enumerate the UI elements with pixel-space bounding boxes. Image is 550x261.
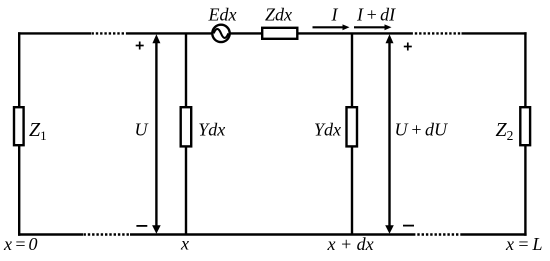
wire shunt branch at x <box>185 33 187 234</box>
svg-text:I+dI: I+dI <box>356 4 396 24</box>
wire left vertical <box>18 32 20 235</box>
svg-text:x + dx: x + dx <box>327 234 374 254</box>
wire top rail dotted right <box>411 32 462 34</box>
impedance Zdx <box>262 28 297 39</box>
voltage arrow U+dU (double headed) <box>385 34 394 234</box>
voltage arrow U (double headed) <box>152 34 161 234</box>
polarity minus right <box>403 225 414 227</box>
source Edx (AC) <box>212 25 229 42</box>
wire bottom rail solid right <box>462 233 527 235</box>
wire bottom rail solid left <box>18 233 83 235</box>
polarity plus left <box>136 42 144 50</box>
wire top rail dotted left <box>92 32 128 34</box>
svg-text:x=L: x=L <box>505 234 543 254</box>
admittance Ydx (left) <box>181 107 192 146</box>
wire top rail solid left <box>18 32 91 34</box>
wire bottom rail dotted left <box>84 233 131 235</box>
wire bottom rail dotted right <box>413 233 462 235</box>
impedance Z1 <box>14 107 24 145</box>
wire shunt branch at x+dx <box>351 33 353 234</box>
svg-text:I: I <box>331 4 339 24</box>
svg-text:Edx: Edx <box>208 4 237 24</box>
svg-text:U: U <box>135 120 149 140</box>
current arrow I+dI <box>354 24 392 30</box>
svg-text:Ydx: Ydx <box>198 120 225 140</box>
current arrow I <box>313 24 350 30</box>
wire top rail solid middle <box>128 32 411 34</box>
svg-text:U+dU: U+dU <box>395 120 449 140</box>
svg-text:Zdx: Zdx <box>265 4 292 24</box>
wire top rail solid right <box>462 32 527 34</box>
svg-text:x=0: x=0 <box>3 234 38 254</box>
svg-text:x: x <box>180 234 189 254</box>
polarity minus left <box>136 225 147 227</box>
impedance Z2 <box>520 107 530 145</box>
wire right vertical <box>524 32 526 235</box>
wire bottom rail solid middle <box>130 233 413 235</box>
svg-text:Ydx: Ydx <box>314 120 341 140</box>
admittance Ydx (right) <box>347 107 358 146</box>
polarity plus right <box>404 43 412 51</box>
